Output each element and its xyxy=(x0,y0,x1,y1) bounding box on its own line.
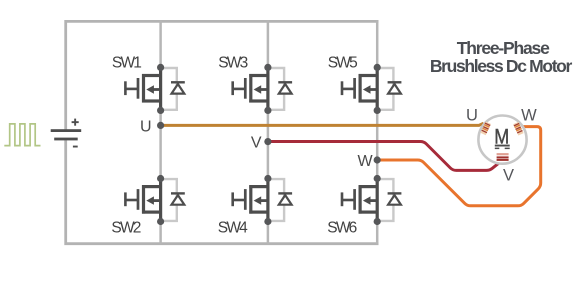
svg-text:V: V xyxy=(503,166,514,184)
svg-text:W: W xyxy=(521,106,537,124)
svg-text:SW3: SW3 xyxy=(218,55,248,72)
svg-text:SW2: SW2 xyxy=(111,219,141,236)
svg-text:V: V xyxy=(251,134,262,151)
svg-text:SW1: SW1 xyxy=(112,55,142,72)
svg-text:U: U xyxy=(466,106,478,124)
svg-text:SW5: SW5 xyxy=(328,55,358,72)
svg-text:Three-Phase: Three-Phase xyxy=(457,38,550,58)
svg-text:W: W xyxy=(357,153,373,170)
svg-text:SW4: SW4 xyxy=(218,219,248,236)
svg-text:Brushless Dc Motor: Brushless Dc Motor xyxy=(430,56,573,76)
svg-text:U: U xyxy=(140,118,152,135)
svg-text:SW6: SW6 xyxy=(327,219,357,236)
